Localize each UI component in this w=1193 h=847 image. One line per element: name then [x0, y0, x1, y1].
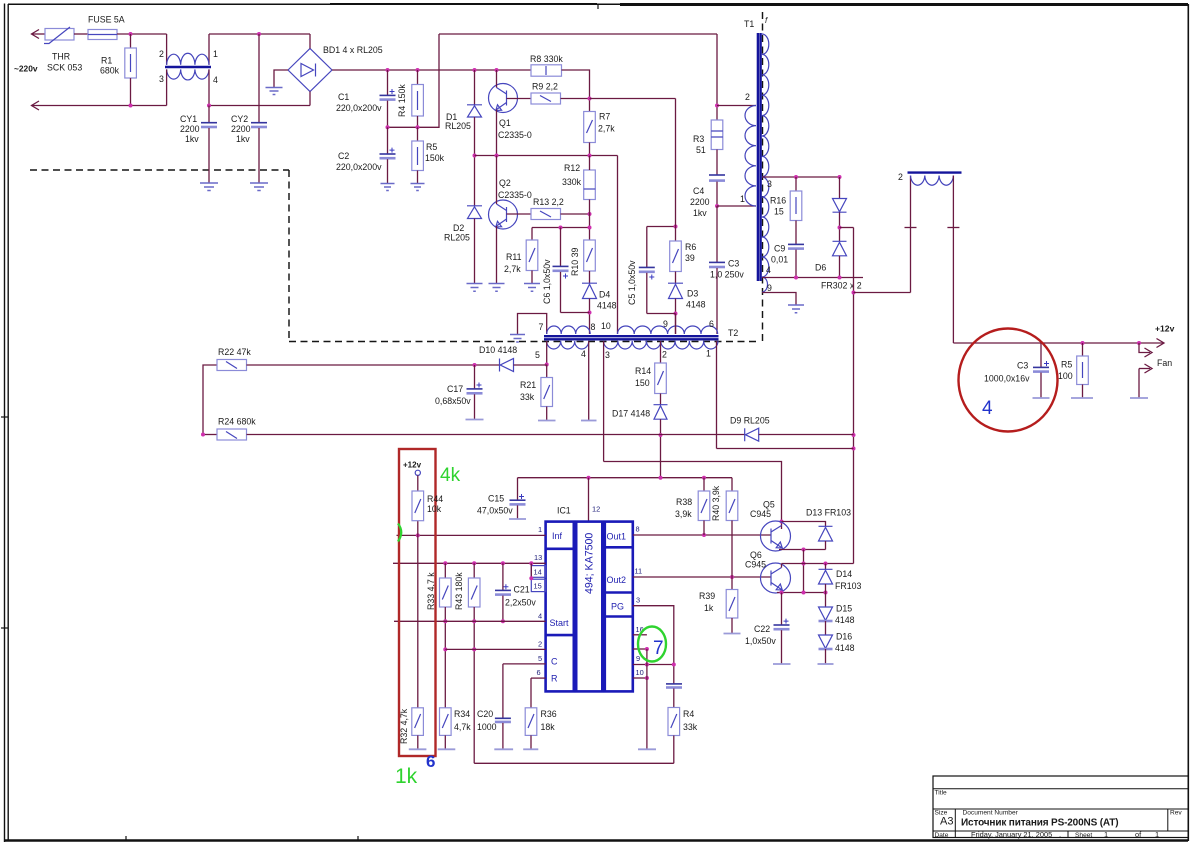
svg-text:C945: C945 — [750, 509, 771, 519]
diode D17 — [654, 405, 668, 420]
svg-text:R21: R21 — [520, 380, 536, 390]
svg-text:R10 39: R10 39 — [570, 248, 580, 276]
wire choke pin1 to bridge top rail — [209, 33, 310, 35]
svg-text:1,0x50v: 1,0x50v — [745, 636, 776, 646]
IC1 right divider under Out2 — [605, 591, 633, 594]
wire C6 to D4 node — [561, 312, 590, 314]
svg-text:R38: R38 — [676, 497, 692, 507]
wire Q5 emitter line — [779, 549, 826, 551]
svg-text:13: 13 — [534, 553, 542, 562]
terminal bar C3 output — [1033, 397, 1050, 399]
junction dot Q1 emitter rail — [495, 154, 499, 158]
svg-text:C6 1,0x50v: C6 1,0x50v — [542, 259, 552, 304]
svg-text:1: 1 — [1155, 830, 1159, 839]
svg-text:R39: R39 — [699, 591, 715, 601]
resistor R1 lead top — [130, 34, 132, 48]
SECTION: title block — [933, 776, 1188, 839]
junction dot R1 bottom — [129, 104, 133, 108]
transistor Q6 emitter arrow — [776, 584, 782, 590]
svg-text:9: 9 — [663, 319, 668, 329]
junction dot C5 jog — [674, 225, 678, 229]
resistor R4 33k inner mark — [671, 714, 677, 728]
output choke core — [908, 171, 962, 173]
wire D10 to T2 pin5 — [514, 364, 547, 366]
capacitor C22 plus — [784, 619, 789, 624]
svg-text:Fan: Fan — [1157, 358, 1172, 368]
fan upper arrowhead — [1145, 348, 1153, 357]
svg-text:Q6: Q6 — [750, 550, 762, 560]
junction dot C1 — [386, 68, 390, 72]
capacitor C16 lead bottom — [673, 689, 675, 708]
svg-text:18k: 18k — [541, 722, 556, 732]
junction dot fan — [1137, 341, 1141, 345]
junction dot pin5 R21 — [545, 363, 549, 367]
svg-text:0,01: 0,01 — [771, 255, 788, 265]
junction dot C17 top — [473, 363, 477, 367]
terminal bar D16 — [818, 663, 834, 665]
wire pin6 R stub — [531, 677, 546, 679]
resistor R12 lead top — [589, 156, 591, 171]
choke L1 pin4 lead — [208, 69, 210, 105]
title block row line under header — [933, 788, 1188, 790]
capacitor C22 lead — [781, 593, 783, 625]
transistor Q2 emitter — [497, 219, 507, 226]
resistor R21 — [541, 378, 553, 407]
resistor R5 output lead bottom — [1082, 385, 1084, 399]
svg-text:1kv: 1kv — [236, 134, 250, 144]
diode D16 bar — [819, 648, 833, 651]
svg-text:2,7k: 2,7k — [504, 264, 521, 274]
T2 top left winding — [547, 326, 591, 334]
svg-text:2200: 2200 — [690, 197, 710, 207]
ground C2 — [381, 184, 395, 191]
T2 pin7 link wire — [518, 314, 547, 335]
junction dot pin14 stub top — [529, 561, 533, 565]
transistor Q2 emitter arrow — [496, 221, 502, 227]
SECTION: T1 and snubbers — [690, 19, 863, 564]
fan upper arrow wire — [1139, 343, 1150, 353]
wire choke pin4 to bridge bottom rail — [209, 105, 310, 107]
junction dot D3 C5 — [674, 312, 678, 316]
capacitor CY1 lead bottom — [208, 128, 210, 183]
svg-text:C22: C22 — [754, 624, 770, 634]
resistor R4 lead bottom — [417, 116, 419, 127]
pin 14 cell — [531, 566, 545, 578]
SECTION: mains input — [14, 15, 383, 191]
resistor R21 lead bottom — [546, 407, 548, 421]
svg-text:2: 2 — [898, 172, 903, 182]
junction dot pin9 cap — [672, 663, 676, 667]
resistor R11 lead top — [531, 228, 533, 241]
wire rail to T2 pin10 — [617, 156, 619, 335]
junction dot R4 — [416, 68, 420, 72]
resistor R43 inner mark — [471, 586, 477, 600]
capacitor C16 plates — [666, 683, 682, 685]
transistor Q2 collector — [497, 204, 507, 211]
transistor Q1 emitter arrow — [496, 105, 502, 111]
tick mark left lead — [905, 227, 917, 229]
svg-text:150k: 150k — [425, 153, 445, 163]
resistor R4 33k lead bottom — [673, 736, 675, 764]
title block divider rev column — [1167, 809, 1169, 831]
resistor R36 lead top — [530, 678, 532, 708]
IC1 middle column — [576, 522, 602, 692]
IC1 right column — [605, 522, 633, 692]
capacitor CY2 plates — [251, 122, 267, 124]
wire C5 to D3 node — [647, 313, 676, 315]
svg-text:D17 4148: D17 4148 — [612, 409, 650, 419]
capacitor C5 plates — [639, 266, 655, 268]
transistor Q5 base bar — [770, 529, 772, 544]
capacitor CY1 plates — [201, 122, 217, 124]
svg-text:Q5: Q5 — [763, 500, 775, 510]
capacitor C1 lead bottom — [387, 101, 389, 128]
resistor R36 — [525, 708, 537, 736]
ground CY2 — [250, 183, 268, 191]
svg-text:CY2: CY2 — [231, 114, 248, 124]
ground BD1 — [266, 88, 283, 95]
wire C3 to T2 pin6 — [716, 268, 718, 334]
junction dot C21 top — [501, 561, 505, 565]
svg-text:1k: 1k — [704, 603, 714, 613]
capacitor C15 plus — [519, 494, 524, 499]
svg-text:680k: 680k — [100, 66, 120, 76]
svg-text:Источник питания PS-200NS (AT): Источник питания PS-200NS (AT) — [961, 818, 1118, 829]
capacitor C1 plates — [380, 94, 396, 96]
diode D6b lead bottom — [839, 256, 841, 278]
resistor R39 lead top — [731, 577, 733, 590]
svg-text:THR: THR — [52, 52, 70, 62]
SECTION: control IC — [393, 476, 771, 764]
IC1 left column — [546, 522, 574, 692]
svg-text:2200: 2200 — [180, 124, 200, 134]
SECTION: annotations — [395, 329, 1058, 789]
junction dot R38 bottom — [702, 533, 706, 537]
diode D3 lead bottom — [675, 299, 677, 335]
capacitor C5 top jog — [647, 227, 676, 268]
resistor R24 inner mark — [226, 432, 237, 439]
junction dot R33 start wire — [443, 619, 447, 623]
SECTION: dc bus and driver transistors Q1 Q2 — [332, 34, 717, 334]
green annotation bracket — [398, 524, 401, 542]
svg-text:330k: 330k — [562, 177, 582, 187]
junction dot R43 pin2 wire — [472, 647, 476, 651]
resistor R44 — [412, 491, 424, 521]
svg-text:R44: R44 — [427, 494, 443, 504]
wire THR to fuse — [74, 33, 88, 35]
junction dot pin9 — [645, 663, 649, 667]
capacitor C21 lead — [502, 563, 504, 590]
junction dot pin12 — [587, 476, 591, 480]
svg-text:R12: R12 — [564, 163, 580, 173]
svg-text:Friday, January 21, 2005: Friday, January 21, 2005 — [971, 830, 1052, 839]
svg-text:Inf: Inf — [552, 531, 563, 541]
svg-text:D15: D15 — [836, 604, 852, 614]
title block divider sheet column — [1067, 831, 1069, 838]
T2 pin4 lead — [588, 341, 590, 421]
resistor R40 — [726, 491, 738, 521]
resistor R4 inner mark — [417, 91, 419, 110]
diode D1 — [467, 105, 482, 117]
junction dot T1 pin1 — [715, 204, 719, 208]
wire pin1 node down to C3 — [716, 206, 718, 262]
resistor R13 inner mark — [540, 211, 551, 217]
output choke winding — [911, 176, 954, 186]
sheet border top thick segment 2 — [330, 3, 597, 5]
svg-text:2,7k: 2,7k — [598, 124, 615, 134]
svg-text:4148: 4148 — [686, 300, 706, 310]
IC1 right divider under PG — [605, 615, 633, 618]
wire pin16 stub — [633, 634, 647, 636]
capacitor C22 lead bottom — [781, 630, 783, 664]
wire line input bottom with arrow — [32, 105, 167, 107]
sheet border top line — [8, 3, 1188, 5]
resistor R24 left wire — [203, 434, 217, 436]
capacitor CY2 lead bottom — [258, 128, 260, 183]
diode D9 — [745, 428, 759, 441]
wire R9 to R7 node — [561, 98, 590, 100]
capacitor C2 plus — [390, 148, 395, 153]
svg-text:R34: R34 — [454, 709, 470, 719]
wire T1 pin9 to ground — [762, 293, 796, 305]
svg-text:51: 51 — [696, 145, 706, 155]
svg-text:1: 1 — [213, 49, 218, 59]
transistor Q6 — [761, 563, 791, 593]
sheet border bottom thick line — [5, 839, 1189, 842]
resistor R3 — [711, 120, 723, 150]
junction dot C9 bottom — [794, 276, 798, 280]
sheet border left inner line — [7, 4, 9, 841]
choke L1 pin1 lead — [208, 34, 210, 65]
transistor Q1 base bar — [506, 91, 508, 106]
capacitor C2 plates — [380, 153, 396, 155]
capacitor C3 output plates — [1033, 366, 1049, 368]
resistor R32 lead bottom — [417, 735, 419, 749]
wire D6 midpoint to output branch — [840, 227, 854, 229]
svg-text:R4 150k: R4 150k — [397, 84, 407, 117]
junction dot D17 branch — [659, 476, 663, 480]
svg-text:Start: Start — [550, 618, 570, 628]
choke L1 bottom winding — [167, 69, 209, 80]
svg-text:6: 6 — [709, 319, 714, 329]
wire T2 pin9 tap — [675, 314, 677, 335]
diode D15 bar — [819, 620, 833, 623]
thermistor THR diagonal — [44, 27, 70, 44]
capacitor C17 lead bottom — [474, 394, 476, 419]
junction dot D14 anode emitter — [824, 591, 828, 595]
wire R9 branch down to R6 — [675, 99, 677, 242]
svg-text:C945: C945 — [745, 560, 766, 570]
diode D1 lead — [474, 70, 476, 105]
svg-text:0,68x50v: 0,68x50v — [435, 396, 471, 406]
capacitor C2 lead — [387, 127, 389, 153]
diode D17 lead — [660, 394, 662, 405]
svg-text:14: 14 — [534, 568, 542, 577]
T1 secondary winding lower — [762, 177, 769, 277]
wire R11 C6 R10 top link — [532, 227, 590, 229]
svg-text:of: of — [1135, 830, 1142, 839]
resistor R11 inner mark — [529, 248, 535, 262]
svg-text:R4: R4 — [683, 709, 694, 719]
resistor R16 lead bottom — [795, 221, 797, 245]
capacitor CY1 lead — [208, 106, 210, 123]
capacitor C9 lead bottom — [795, 250, 797, 278]
resistor R16 — [790, 191, 802, 221]
wire R8 right corner — [562, 70, 590, 112]
junction dot output branch T2 pin1 — [852, 447, 856, 451]
capacitor C4 plates — [709, 174, 725, 176]
wire C4 to T1 pin1 — [716, 182, 718, 206]
junction dot pin1 R44 — [416, 533, 420, 537]
T2 core — [544, 336, 719, 339]
transistor Q6 base bar — [770, 571, 772, 586]
svg-text:5: 5 — [535, 350, 540, 360]
wire pin14 stub — [530, 563, 532, 578]
svg-text:D3: D3 — [687, 289, 698, 299]
pin 15 cell — [531, 579, 545, 591]
diode D17 lead bottom — [660, 419, 662, 478]
svg-text:RL205: RL205 — [444, 233, 470, 243]
svg-text:Out2: Out2 — [607, 575, 627, 585]
svg-text:C9: C9 — [774, 244, 785, 254]
junction dot CY1 top — [207, 104, 211, 108]
svg-text:R11: R11 — [506, 252, 522, 262]
junction dot R33 pin2 wire — [443, 647, 447, 651]
transistor Q5 emitter arrow — [776, 542, 782, 548]
svg-text:Date: Date — [935, 832, 949, 839]
title block divider size column — [954, 809, 956, 838]
resistor R11 — [526, 240, 538, 271]
diode D16 lead bottom — [825, 649, 827, 664]
junction dot D1 — [473, 68, 477, 72]
wire Q6 emitter line — [777, 592, 826, 594]
IC1 left divider under Start — [546, 634, 574, 637]
resistor R1 — [125, 48, 137, 78]
junction dot D4 C6 — [588, 311, 592, 315]
svg-text:SCK 053: SCK 053 — [47, 63, 82, 73]
svg-text:D16: D16 — [836, 632, 852, 642]
junction dot R10 top — [588, 226, 592, 230]
transistor Q5 collector diag — [771, 526, 782, 533]
T2 pin1 lead down — [716, 341, 718, 449]
svg-text:5: 5 — [538, 654, 542, 663]
svg-text:D2: D2 — [453, 223, 464, 233]
svg-text:BD1 4 x RL205: BD1 4 x RL205 — [323, 45, 383, 55]
junction dot Q5 emitter branch — [802, 548, 806, 552]
resistor R40 inner mark — [729, 499, 735, 513]
border tick bottom 2 — [357, 836, 359, 841]
resistor R43 lead bottom long — [473, 607, 475, 763]
svg-text:4148: 4148 — [835, 643, 855, 653]
wire Vcc rail above IC — [518, 477, 733, 479]
resistor R44 inner mark — [415, 499, 421, 513]
svg-text:R3: R3 — [693, 134, 704, 144]
resistor R9 — [531, 93, 561, 104]
wire pin5 C — [503, 663, 546, 665]
resistor R4 lead top — [417, 70, 419, 85]
junction dot CY2 top — [257, 32, 261, 36]
terminal bar R39 — [724, 633, 741, 635]
wire emitter rail — [475, 155, 618, 157]
choke L1 pin3 lead — [166, 69, 168, 105]
resistor R11 lead bottom — [531, 271, 533, 284]
resistor R5 output inner mark — [1082, 362, 1084, 378]
resistor R39 lead bottom — [731, 618, 733, 634]
resistor R14 inner mark — [658, 371, 664, 385]
svg-text:2: 2 — [538, 640, 542, 649]
resistor R36 lead bottom — [530, 735, 532, 749]
junction dot R22 R24 corner — [201, 433, 205, 437]
resistor R7 inner mark — [587, 120, 593, 133]
title block outer box — [933, 776, 1188, 838]
svg-text:C2335-0: C2335-0 — [498, 190, 532, 200]
wire rectified output down — [853, 228, 855, 564]
transistor Q5 emitter diag — [771, 541, 782, 548]
transistor Q2 — [489, 200, 518, 229]
wire pin8 Out1 — [633, 534, 771, 536]
junction dot Q6 emitter — [780, 591, 784, 595]
T2 bottom right winding — [604, 341, 718, 349]
transistor Q2 base bar — [506, 207, 508, 222]
terminal bar C15 — [509, 518, 526, 520]
resistor R3 inner marks — [711, 131, 723, 137]
wire D9 to output branch — [759, 434, 854, 436]
wire pin9 stub — [633, 664, 674, 666]
svg-text:39: 39 — [685, 253, 695, 263]
SECTION: output rectifier and 12v rail — [854, 172, 1175, 398]
svg-text:C15: C15 — [488, 494, 504, 504]
capacitor C21 plus — [503, 584, 508, 589]
svg-text:8: 8 — [591, 322, 596, 332]
resistor R38 inner mark — [701, 499, 707, 513]
wire pin12 stub — [588, 478, 590, 522]
diode D4 lead — [589, 271, 591, 283]
terminal bar R36 — [523, 748, 538, 750]
wire R12 node down to R10 — [589, 214, 591, 240]
svg-text:D10 4148: D10 4148 — [479, 345, 517, 355]
svg-text:3: 3 — [767, 179, 772, 189]
diode D2 lead to ground — [474, 219, 476, 284]
svg-text:150: 150 — [635, 378, 650, 388]
svg-text:1: 1 — [538, 525, 542, 534]
svg-text:R7: R7 — [599, 112, 610, 122]
svg-text:1: 1 — [1104, 830, 1108, 839]
resistor R44 lead top — [417, 475, 419, 491]
border tick left lower — [1, 627, 8, 629]
resistor R8 inner mark — [545, 66, 547, 75]
capacitor C3 output lead bottom — [1040, 373, 1042, 398]
resistor R5 lead top — [417, 127, 419, 141]
junction dot output branch choke — [852, 291, 856, 295]
T1 core — [758, 33, 761, 281]
wire D13 cathode link — [782, 522, 826, 527]
svg-text:FR302 x 2: FR302 x 2 — [821, 281, 862, 291]
svg-text:C20: C20 — [477, 709, 493, 719]
T1 secondary winding tail — [762, 277, 768, 292]
junction dot pin7 — [645, 647, 649, 651]
resistor R22 inner mark — [226, 362, 237, 369]
svg-text:4: 4 — [766, 265, 771, 275]
svg-text:C21: C21 — [514, 585, 530, 595]
resistor R43 — [468, 578, 480, 607]
svg-text:8: 8 — [636, 525, 640, 534]
transistor Q2 collector lead — [496, 156, 498, 205]
resistor R36 inner mark — [528, 714, 534, 728]
junction dot D17 rail — [659, 433, 663, 437]
transistor Q1 emitter lead — [496, 110, 498, 156]
resistor R7 — [584, 112, 596, 143]
svg-text:1000,0x16v: 1000,0x16v — [984, 374, 1030, 384]
